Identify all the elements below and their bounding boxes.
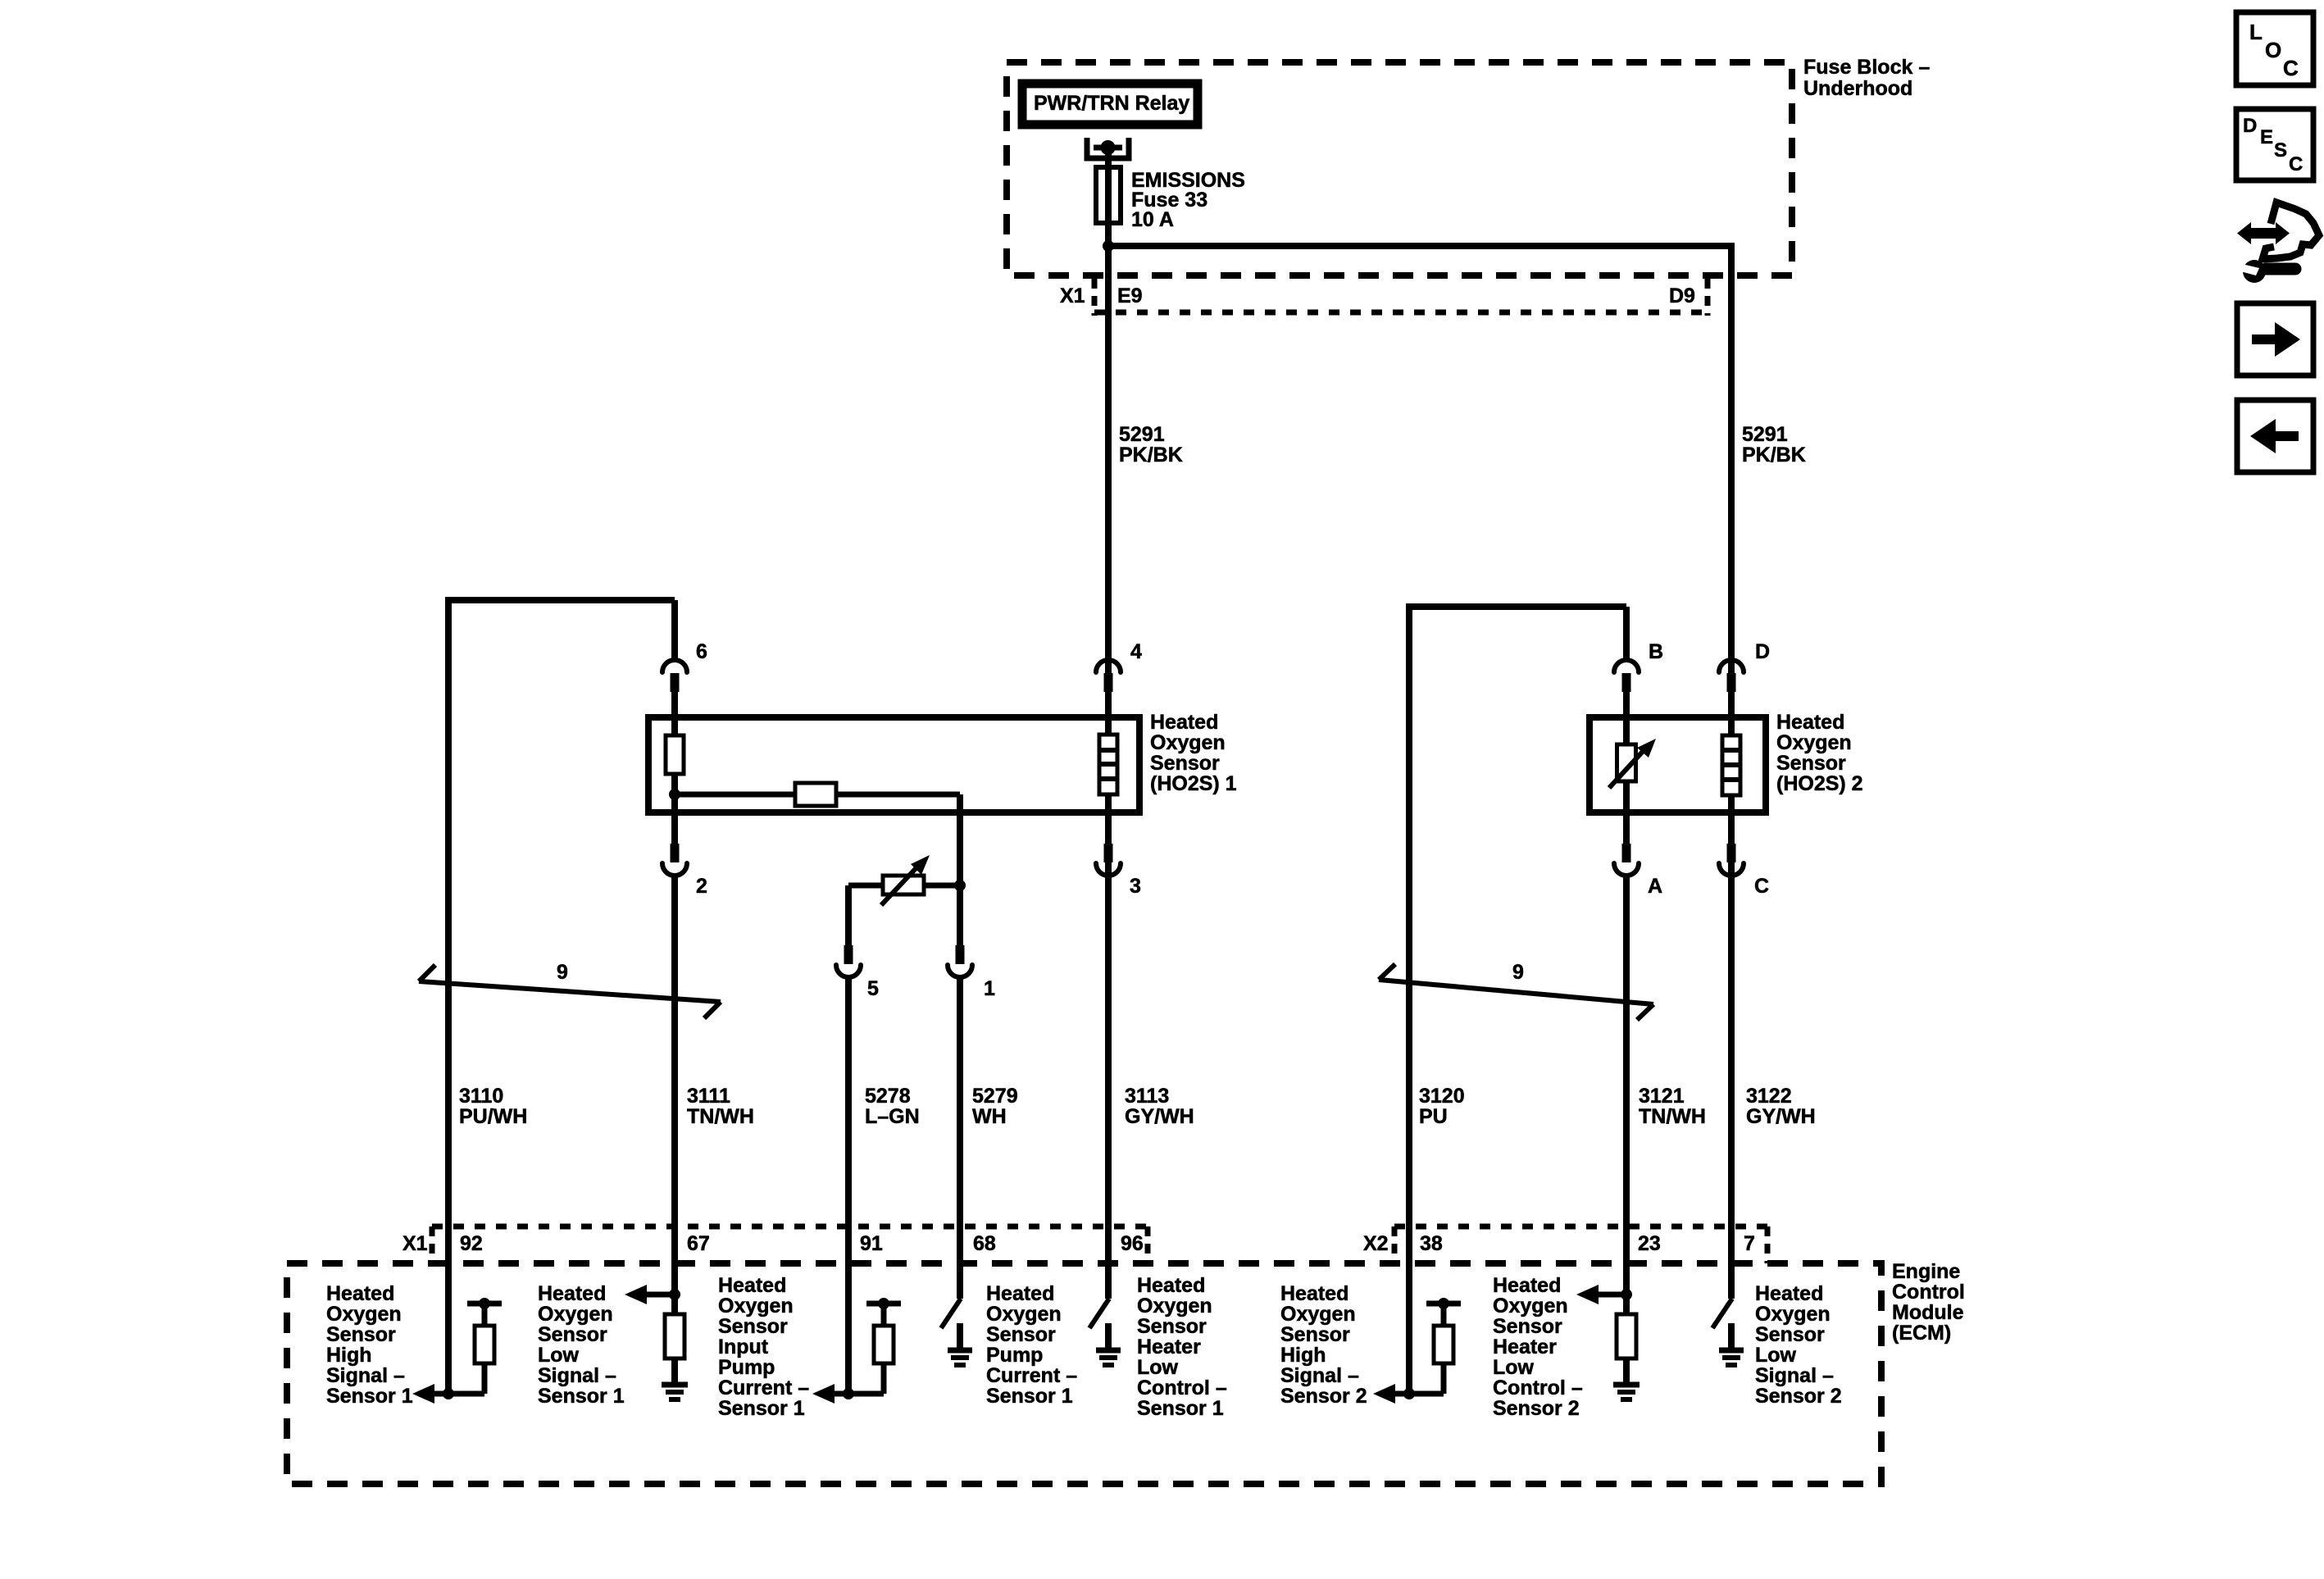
svg-text:Heated: Heated — [1755, 1282, 1823, 1305]
variable sensing element inside HO2S2 — [1617, 744, 1636, 781]
svg-text:S: S — [2274, 139, 2287, 162]
pump current trim resistor (variable) — [848, 883, 883, 889]
internal switch contact to ground (wire x=2112) — [1712, 1299, 1732, 1328]
wire 3121 down to ECM — [1623, 877, 1630, 1295]
svg-text:Signal –: Signal – — [326, 1364, 405, 1387]
wire into HO2S1 box — [671, 692, 678, 735]
wire 3122 down to ECM — [1728, 877, 1735, 1299]
ground — [1719, 1348, 1744, 1354]
svg-text:Oxygen: Oxygen — [1280, 1303, 1356, 1326]
internal switch contact to ground (wire x=1171) — [941, 1299, 961, 1328]
svg-text:Heated: Heated — [718, 1274, 786, 1297]
svg-text:Control: Control — [1892, 1281, 1965, 1304]
internal driver: arrow, resistor to ground (wire x=1984) — [1621, 1289, 1632, 1300]
svg-text:5278: 5278 — [865, 1085, 911, 1108]
svg-text:5291: 5291 — [1119, 423, 1165, 446]
svg-text:4: 4 — [1130, 640, 1142, 663]
svg-text:Sensor: Sensor — [1150, 752, 1220, 775]
svg-text:Sensor 2: Sensor 2 — [1493, 1397, 1580, 1420]
svg-text:3113: 3113 — [1125, 1085, 1169, 1108]
PWR/TRN Relay box — [1022, 84, 1198, 125]
svg-text:Sensor: Sensor — [1280, 1323, 1350, 1346]
svg-text:Fuse Block –: Fuse Block – — [1803, 56, 1930, 79]
wire 3111 down to ECM — [671, 877, 678, 1295]
wire 3111 upper segment — [671, 600, 678, 660]
svg-text:Heated: Heated — [1150, 711, 1218, 734]
internal driver: arrow, resistor to ground (wire x=823) — [669, 1289, 680, 1300]
svg-text:High: High — [1280, 1344, 1326, 1367]
svg-text:Sensor 2: Sensor 2 — [1755, 1385, 1842, 1408]
ground — [1613, 1382, 1640, 1388]
ground — [1096, 1348, 1121, 1354]
wire 3121 upper segment — [1623, 607, 1630, 660]
svg-text:PK/BK: PK/BK — [1119, 444, 1183, 466]
svg-text:Pump: Pump — [986, 1344, 1043, 1367]
svg-text:3110: 3110 — [459, 1085, 503, 1108]
harness loop indicator 9 left — [419, 981, 721, 1002]
svg-text:Heated: Heated — [326, 1282, 394, 1305]
internal pull-up resistor network at pin (wire x=1035) — [866, 1301, 901, 1307]
svg-text:Heated: Heated — [1776, 711, 1844, 734]
svg-text:Signal –: Signal – — [1280, 1364, 1359, 1387]
internal horizontal wire left part — [675, 792, 795, 798]
wire 3120 top horizontal bracket — [1409, 607, 1626, 1394]
sensing element resistor inside HO2S1 — [666, 735, 684, 774]
svg-text:68: 68 — [973, 1232, 996, 1255]
connector D — [1719, 660, 1744, 672]
svg-text:D9: D9 — [1669, 284, 1695, 307]
svg-text:WH: WH — [972, 1105, 1007, 1128]
svg-text:Current –: Current – — [718, 1377, 809, 1399]
svg-text:C: C — [1754, 875, 1769, 898]
svg-text:Oxygen: Oxygen — [718, 1295, 794, 1317]
connector B — [1614, 660, 1639, 672]
connector A — [1622, 844, 1631, 862]
wire 5278 down to ECM — [845, 979, 852, 1394]
svg-text:5291: 5291 — [1742, 423, 1788, 446]
connector 2 — [671, 840, 678, 847]
svg-text:Signal –: Signal – — [538, 1364, 616, 1387]
internal horizontal wire right part — [836, 792, 960, 798]
wire D into box — [1728, 692, 1735, 735]
wire 5279 down to ECM — [957, 979, 963, 1299]
svg-text:B: B — [1649, 640, 1663, 663]
svg-text:(HO2S) 1: (HO2S) 1 — [1150, 772, 1237, 795]
svg-text:Sensor: Sensor — [718, 1315, 788, 1338]
junction dot inside HO2S1 — [669, 789, 680, 800]
svg-text:Sensor 1: Sensor 1 — [1137, 1397, 1224, 1420]
wire 5291 from relay through fuse — [1105, 148, 1112, 1299]
internal pull-up resistor network at pin (wire x=547) — [467, 1301, 502, 1307]
svg-text:C: C — [2289, 153, 2303, 175]
svg-text:2: 2 — [696, 875, 707, 898]
svg-text:3111: 3111 — [687, 1085, 730, 1108]
next page arrow icon — [2237, 303, 2313, 375]
svg-text:Heater: Heater — [1493, 1336, 1557, 1358]
svg-text:Sensor: Sensor — [538, 1323, 607, 1346]
svg-text:C: C — [2283, 56, 2299, 80]
svg-text:Heated: Heated — [1280, 1282, 1348, 1305]
svg-text:PU/WH: PU/WH — [459, 1105, 527, 1128]
fuse EMISSIONS Fuse 33 10A symbol — [1096, 167, 1121, 223]
svg-text:Sensor 2: Sensor 2 — [1280, 1385, 1367, 1408]
svg-text:High: High — [326, 1344, 372, 1367]
svg-text:Sensor 1: Sensor 1 — [538, 1385, 625, 1408]
svg-text:Sensor 1: Sensor 1 — [326, 1385, 413, 1408]
svg-text:Sensor: Sensor — [1776, 752, 1846, 775]
heater element inside HO2S2 — [1722, 735, 1740, 795]
LOC icon box — [2236, 12, 2313, 85]
HO2S1 box — [648, 717, 1139, 812]
svg-text:Low: Low — [1755, 1344, 1797, 1367]
ECM connector strip X1 dotted — [432, 1224, 1148, 1230]
connector 3 — [1104, 844, 1113, 862]
svg-text:5279: 5279 — [972, 1085, 1018, 1108]
wire heater to box bottom — [1728, 795, 1735, 844]
svg-text:E9: E9 — [1117, 284, 1143, 307]
svg-text:L: L — [2249, 20, 2263, 44]
svg-text:A: A — [1648, 875, 1662, 898]
svg-text:E: E — [2260, 126, 2273, 148]
svg-text:3121: 3121 — [1639, 1085, 1685, 1108]
svg-text:Module: Module — [1892, 1301, 1964, 1324]
svg-text:Sensor 1: Sensor 1 — [986, 1385, 1073, 1408]
connector C — [1727, 844, 1736, 862]
junction dot at fuse output — [1103, 240, 1114, 252]
wire 3113 down to ECM — [1105, 877, 1112, 1299]
svg-text:Oxygen: Oxygen — [1755, 1303, 1831, 1326]
svg-text:Oxygen: Oxygen — [538, 1303, 613, 1326]
svg-text:Heated: Heated — [1493, 1274, 1561, 1297]
svg-text:L–GN: L–GN — [865, 1105, 920, 1128]
svg-text:Heated: Heated — [1137, 1274, 1205, 1297]
svg-text:Sensor: Sensor — [1137, 1315, 1207, 1338]
svg-text:Oxygen: Oxygen — [1493, 1295, 1568, 1317]
svg-text:Oxygen: Oxygen — [1150, 731, 1226, 754]
svg-text:Current –: Current – — [986, 1364, 1077, 1387]
svg-text:Oxygen: Oxygen — [1776, 731, 1852, 754]
svg-text:Pump: Pump — [718, 1356, 775, 1379]
relay contact terminal symbol — [1087, 138, 1129, 158]
svg-text:23: 23 — [1638, 1232, 1661, 1255]
connector 6 — [662, 660, 687, 672]
svg-text:PWR/TRN Relay: PWR/TRN Relay — [1034, 92, 1189, 115]
svg-text:1: 1 — [984, 977, 995, 1000]
svg-text:GY/WH: GY/WH — [1125, 1105, 1194, 1128]
svg-text:Heated: Heated — [986, 1282, 1054, 1305]
junction dot wire 5279 — [954, 880, 966, 891]
svg-text:67: 67 — [687, 1232, 710, 1255]
svg-text:D: D — [1755, 640, 1770, 663]
svg-text:91: 91 — [860, 1232, 883, 1255]
svg-text:D: D — [2243, 115, 2257, 137]
svg-text:3: 3 — [1130, 875, 1141, 898]
svg-text:Signal –: Signal – — [1755, 1364, 1834, 1387]
svg-text:Oxygen: Oxygen — [1137, 1295, 1212, 1317]
svg-text:Input: Input — [718, 1336, 769, 1358]
svg-text:9: 9 — [1512, 961, 1524, 984]
ECM connector strip X2 dotted — [1394, 1224, 1767, 1230]
previous page arrow icon — [2237, 400, 2313, 472]
harness loop indicator 9 right — [1379, 980, 1653, 1004]
wire from element to box bottom — [1623, 781, 1630, 844]
connector 1 — [956, 945, 965, 964]
svg-text:Oxygen: Oxygen — [326, 1303, 402, 1326]
svg-text:Sensor: Sensor — [986, 1323, 1056, 1346]
Engine Control Module dashed box — [287, 1263, 1881, 1484]
wire into HO2S2 box — [1623, 692, 1630, 744]
svg-text:TN/WH: TN/WH — [1639, 1105, 1706, 1128]
wiring harness / wrench icon — [2263, 202, 2319, 259]
internal switch contact to ground (wire x=1352) — [1089, 1299, 1109, 1328]
svg-text:Low: Low — [538, 1344, 580, 1367]
ground — [662, 1382, 688, 1388]
svg-text:O: O — [2265, 38, 2281, 62]
svg-text:Sensor 1: Sensor 1 — [718, 1397, 805, 1420]
internal series resistor — [795, 783, 836, 806]
svg-text:92: 92 — [460, 1232, 483, 1255]
svg-text:3120: 3120 — [1419, 1085, 1465, 1108]
svg-text:96: 96 — [1121, 1232, 1144, 1255]
wire 5278 from trim resistor down — [845, 885, 852, 945]
HO2S2 box — [1590, 717, 1766, 812]
svg-text:Heater: Heater — [1137, 1336, 1201, 1358]
svg-text:Heated: Heated — [538, 1282, 606, 1305]
svg-text:Low: Low — [1137, 1356, 1179, 1379]
svg-text:X2: X2 — [1363, 1232, 1389, 1255]
svg-text:(ECM): (ECM) — [1892, 1322, 1951, 1345]
DESC icon box — [2236, 109, 2313, 180]
connector 5 — [844, 945, 853, 964]
connector strip X1 of fuse block (E9 / D9) — [1092, 279, 1098, 316]
svg-text:TN/WH: TN/WH — [687, 1105, 754, 1128]
svg-text:Underhood: Underhood — [1803, 77, 1912, 100]
svg-text:Control –: Control – — [1137, 1377, 1227, 1399]
wire 5291 right branch going down — [1728, 246, 1735, 1299]
svg-text:Oxygen: Oxygen — [986, 1303, 1062, 1326]
svg-text:X1: X1 — [402, 1232, 428, 1255]
svg-text:X1: X1 — [1060, 284, 1085, 307]
wire 3110 top horizontal bracket — [448, 600, 675, 1394]
Fuse Block - Underhood dashed enclosure — [1007, 62, 1792, 275]
svg-text:6: 6 — [696, 640, 707, 663]
svg-text:PK/BK: PK/BK — [1742, 444, 1806, 466]
wire 5279 down from internal resistor — [957, 794, 963, 945]
svg-text:10 A: 10 A — [1131, 208, 1174, 231]
wire from resistor to junction — [671, 774, 678, 844]
svg-text:Engine: Engine — [1892, 1260, 1960, 1283]
svg-text:Sensor: Sensor — [326, 1323, 396, 1346]
svg-text:GY/WH: GY/WH — [1746, 1105, 1816, 1128]
svg-text:Sensor: Sensor — [1493, 1315, 1562, 1338]
svg-text:9: 9 — [557, 961, 568, 984]
svg-text:5: 5 — [867, 977, 879, 1000]
svg-text:(HO2S) 2: (HO2S) 2 — [1776, 772, 1863, 795]
svg-text:Control –: Control – — [1493, 1377, 1583, 1399]
heater element inside HO2S1 — [1099, 735, 1117, 794]
svg-text:Sensor: Sensor — [1755, 1323, 1825, 1346]
svg-text:38: 38 — [1420, 1232, 1443, 1255]
svg-text:Low: Low — [1493, 1356, 1535, 1379]
svg-text:7: 7 — [1744, 1232, 1755, 1255]
ground — [948, 1348, 972, 1354]
svg-text:PU: PU — [1419, 1105, 1448, 1128]
wire 5291 left: connector 4 — [1096, 660, 1121, 672]
svg-text:3122: 3122 — [1746, 1085, 1792, 1108]
wire from fuse output to right branch — [1108, 243, 1735, 249]
internal pull-up resistor network at pin (wire x=1719) — [1426, 1301, 1461, 1307]
